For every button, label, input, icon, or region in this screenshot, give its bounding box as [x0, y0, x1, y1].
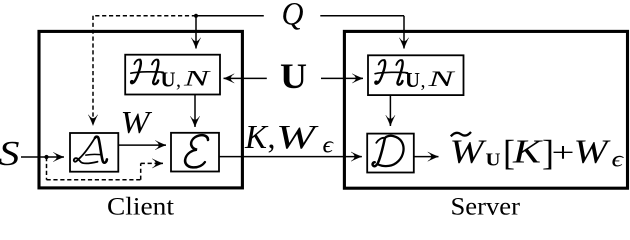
svg-text:N: N: [182, 66, 211, 91]
dashed wire down to A (arrow): [92, 16, 94, 126]
junction dot on Q line: [194, 14, 198, 18]
svg-text:K: K: [512, 134, 544, 171]
svg-text:Q: Q: [282, 0, 304, 33]
svg-text:,: ,: [268, 119, 276, 155]
svg-text:U: U: [280, 56, 307, 96]
wire H client down to E (arrow): [194, 95, 196, 128]
block A (agent): [70, 133, 118, 172]
label Q: [282, 0, 304, 33]
wire D to output (arrow): [414, 156, 439, 158]
dashed wire Q to left: [93, 15, 196, 17]
svg-text:,: ,: [421, 70, 426, 92]
wire E to D labelled K,W_eps (arrow): [219, 156, 362, 158]
label S: [0, 134, 20, 173]
block D (decoder): [367, 134, 414, 173]
wire U to H server (arrow): [321, 77, 363, 79]
junction dot on S line: [44, 155, 48, 159]
svg-text:S: S: [0, 134, 20, 173]
server box: [344, 31, 627, 188]
block H_UN server (hash function): [368, 55, 464, 95]
svg-text:W: W: [574, 134, 611, 171]
wire Q down to H server (arrow): [403, 16, 405, 49]
wire Q down to H client (arrow): [195, 16, 197, 49]
wire Q horizontal right segment: [320, 15, 404, 17]
dashed wire bottom horizontal: [47, 179, 141, 181]
svg-text:W: W: [450, 134, 487, 171]
wire H server down to D (arrow): [389, 95, 391, 126]
svg-text:ϵ: ϵ: [323, 133, 335, 159]
dashed wire S branch down: [46, 157, 48, 180]
label Server: [451, 194, 521, 221]
svg-text:W: W: [276, 119, 319, 156]
svg-text:U: U: [405, 68, 420, 92]
block H_UN client (hash function): [125, 55, 220, 95]
dashed wire up segment: [140, 163, 142, 179]
svg-text:ϵ: ϵ: [612, 147, 624, 172]
output label W~_U[K]+W_eps: [450, 132, 624, 173]
svg-text:,: ,: [176, 70, 181, 92]
svg-text:K: K: [244, 119, 269, 156]
wire U to H client (arrow): [224, 77, 267, 79]
svg-text:U: U: [486, 149, 501, 169]
wire S to A (arrow): [21, 156, 64, 158]
svg-text:Client: Client: [107, 194, 174, 217]
svg-text:+: +: [552, 138, 575, 168]
label U: [280, 56, 307, 96]
wire Q horizontal left segment: [196, 15, 264, 17]
svg-text:U: U: [161, 68, 176, 92]
svg-text:Server: Server: [451, 194, 521, 217]
wire A to E labelled W (arrow): [118, 144, 166, 146]
label W (between A and E): [121, 104, 154, 140]
label Client: [107, 194, 174, 221]
dashed wire into E (arrow): [141, 162, 163, 164]
svg-text:W: W: [121, 104, 154, 140]
block E (encoder): [171, 133, 219, 172]
svg-text:N: N: [427, 66, 456, 91]
label K,W_eps: [244, 119, 334, 159]
client box: [39, 31, 242, 188]
